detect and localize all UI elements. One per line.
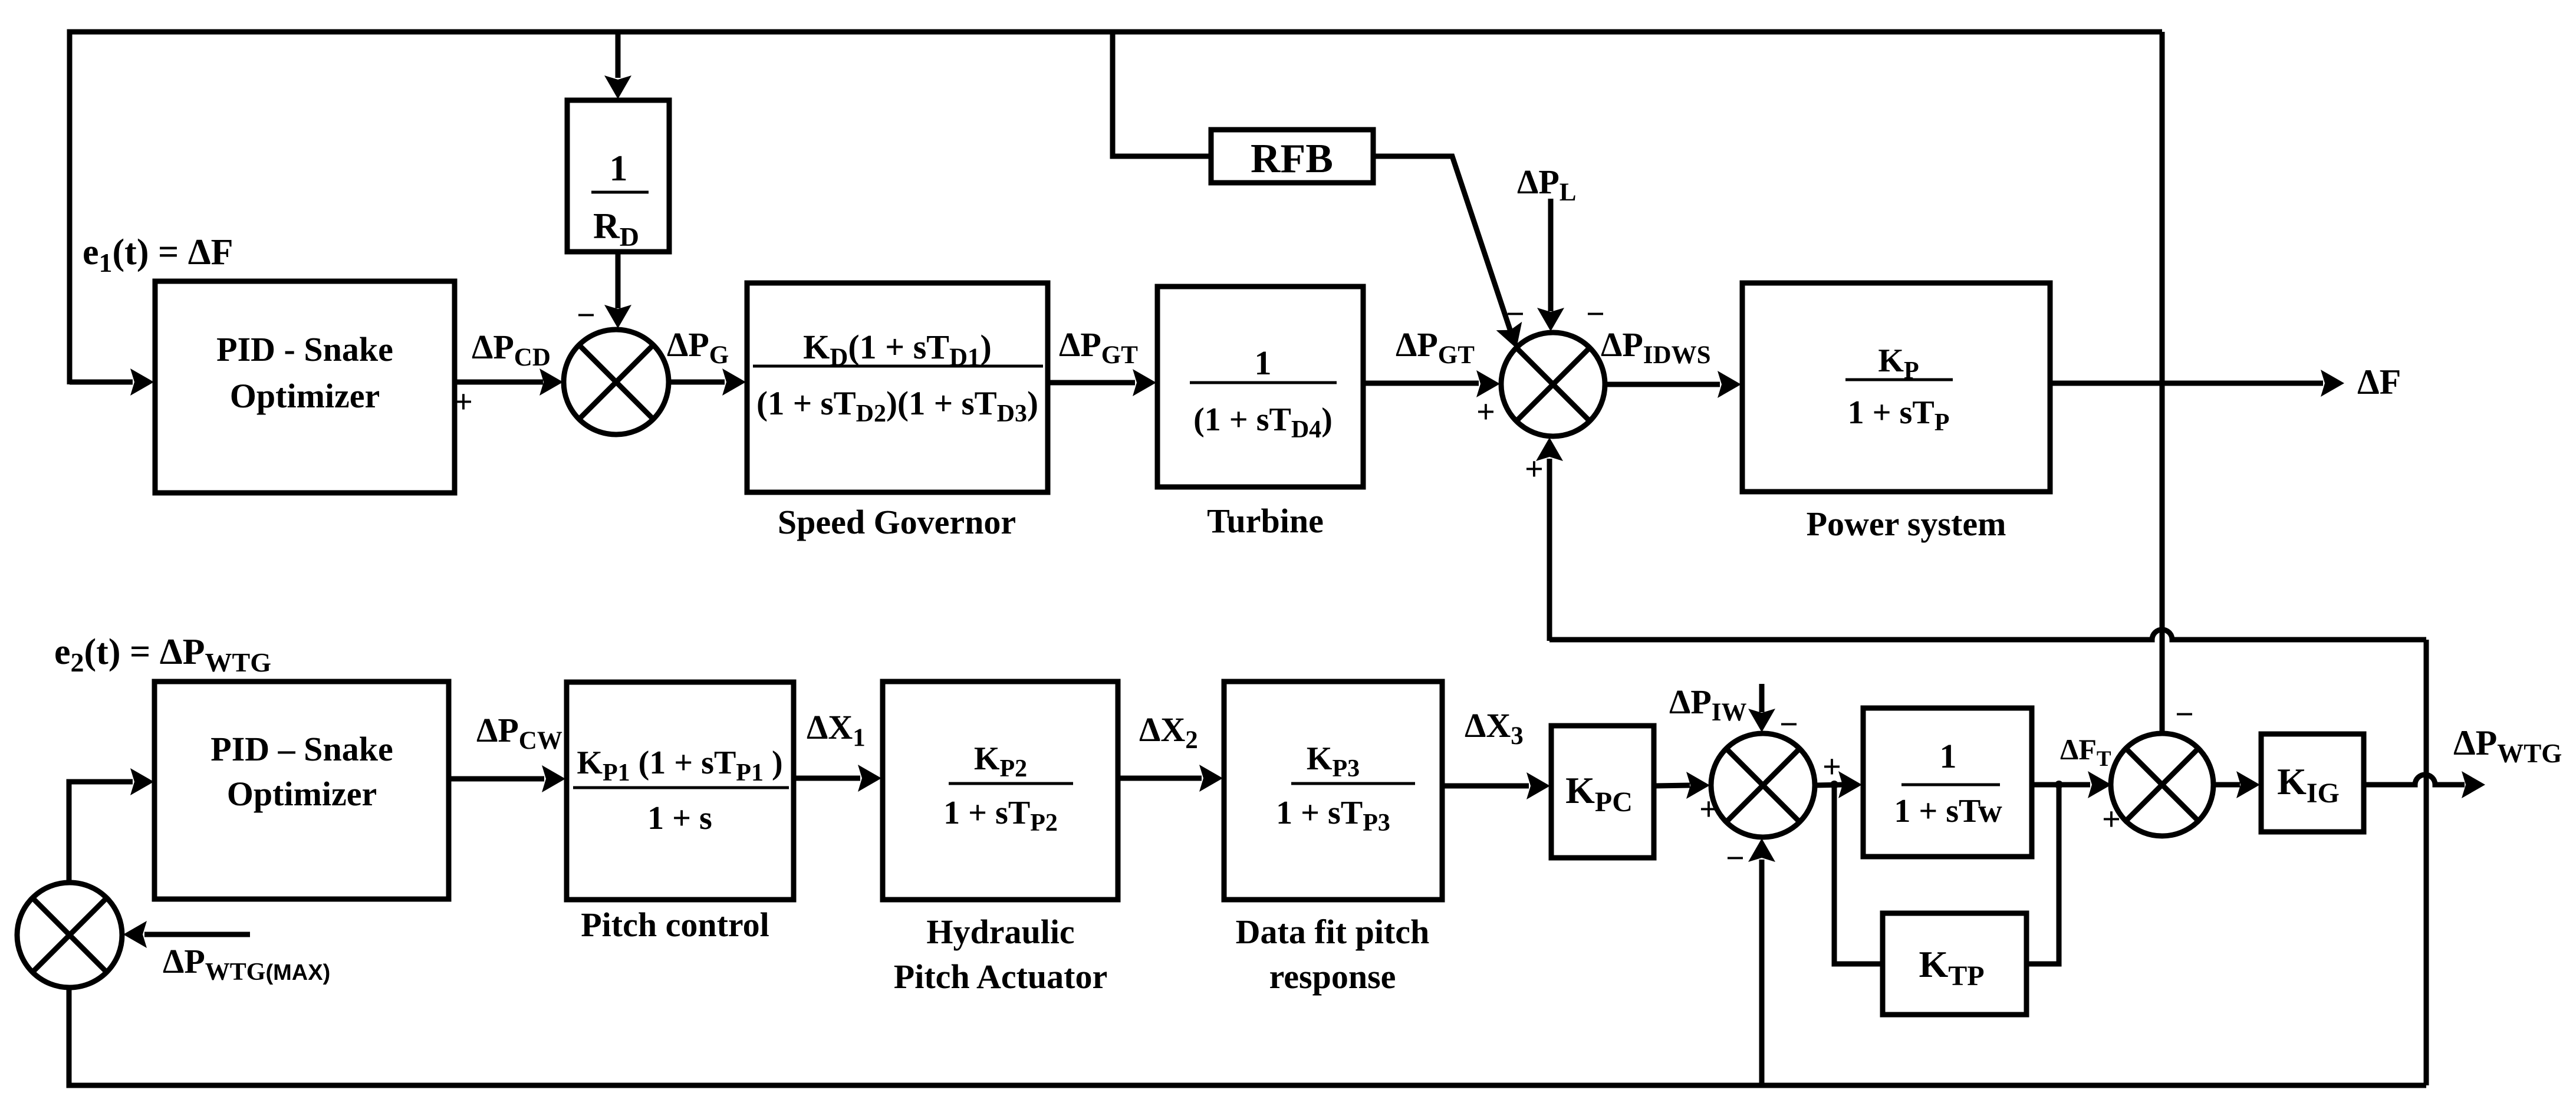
block Kig xyxy=(2261,734,2364,832)
svg-text:RFB: RFB xyxy=(1251,136,1333,182)
svg-text:−: − xyxy=(1506,296,1525,333)
wire: sum3 to 1/(1+sTw) xyxy=(1815,785,1843,785)
svg-text:Speed Governor: Speed Governor xyxy=(778,503,1016,541)
block RFB xyxy=(1211,130,1373,183)
svg-text:1 + s: 1 + s xyxy=(647,800,712,837)
summing junction sum4 xyxy=(2111,733,2213,836)
block Speed Governor xyxy=(747,283,1048,492)
summing junction sum3 xyxy=(1711,733,1815,837)
svg-text:+: + xyxy=(1822,749,1841,785)
block Pitch control xyxy=(567,682,794,900)
block 1/RD droop xyxy=(567,100,669,252)
block Kpc xyxy=(1551,726,1654,858)
svg-text:Pitch Actuator: Pitch Actuator xyxy=(894,957,1107,996)
svg-text:1: 1 xyxy=(1940,737,1957,775)
wire: Power system output to DF arrow xyxy=(2050,381,2323,386)
wire: sum4 to Kig xyxy=(2213,782,2240,788)
wire: sum5 up and into PID2 xyxy=(69,782,133,883)
block Ktp xyxy=(1883,913,2026,1015)
wire: Speed Governor to Turbine xyxy=(1048,380,1135,386)
wire: bottom feedback line xyxy=(69,988,2426,1085)
wire: Turbine to sum2 xyxy=(1363,381,1479,386)
wire: output branch vertical (DPwtg feedback) xyxy=(2424,640,2429,1085)
svg-text:+: + xyxy=(1476,394,1495,430)
wire: 1/RD to sum1 xyxy=(616,252,621,308)
summing junction sum2 xyxy=(1501,333,1605,436)
summing junction sum1 xyxy=(564,330,669,434)
wire: drop from top line to RFB xyxy=(1113,32,1211,156)
wire: Pitch control to Hydraulic xyxy=(794,776,860,781)
wire: Ktp loop left side xyxy=(1834,785,1883,964)
wire: top feedback line (DF to e1) xyxy=(70,32,2162,384)
wire: Hydraulic to Data fit xyxy=(1118,776,1202,781)
wire: DPwtg max input xyxy=(144,932,250,937)
svg-text:−: − xyxy=(2175,696,2194,733)
block Hydraulic Pitch Actuator xyxy=(883,682,1118,900)
wire: wind feedback up into sum2 bottom xyxy=(1547,459,1552,641)
wire: Kpc to sum3 xyxy=(1654,785,1690,786)
block Turbine xyxy=(1157,287,1363,487)
wire: bottom feedback up into sum3 xyxy=(1759,860,1765,1085)
block PID-Snake Optimizer (bottom) xyxy=(154,682,449,899)
block Data fit pitch response xyxy=(1224,682,1442,900)
wire: PID2 to Pitch control xyxy=(449,776,544,782)
wire: Ktp loop right side xyxy=(2026,785,2059,964)
wire: PID out to sum1 xyxy=(455,380,543,385)
svg-text:PID – Snake: PID – Snake xyxy=(210,730,393,768)
wire: DPl into sum2 top xyxy=(1548,199,1554,311)
svg-text:1: 1 xyxy=(610,149,628,189)
svg-text:ΔF: ΔF xyxy=(2357,363,2401,401)
block Power system xyxy=(1742,283,2050,492)
svg-text:+: + xyxy=(2102,801,2121,838)
wire: 1/(1+sTw) to sum4 xyxy=(2032,782,2090,788)
svg-text:Optimizer: Optimizer xyxy=(230,377,380,415)
svg-text:+: + xyxy=(454,384,473,420)
wire: wind feedback horizontal with hop over DF line xyxy=(1549,630,2426,640)
block 1/(1+sTw) xyxy=(1863,708,2032,857)
svg-text:Hydraulic: Hydraulic xyxy=(926,913,1074,951)
junction dot (Ktp tap right) xyxy=(2055,781,2063,789)
svg-text:Pitch control: Pitch control xyxy=(581,906,769,944)
wire: drop from top line into 1/RD xyxy=(616,32,621,78)
svg-text:−: − xyxy=(1726,840,1745,877)
wire: sum1 to Speed Governor xyxy=(669,380,725,385)
wire: RFB diagonal into sum2 xyxy=(1373,156,1511,331)
svg-text:Optimizer: Optimizer xyxy=(227,775,377,813)
svg-text:Turbine: Turbine xyxy=(1207,502,1324,540)
wire: sum2 to Power system xyxy=(1605,382,1720,387)
wire: Data fit to Kpc xyxy=(1442,784,1529,789)
svg-text:1 + sTP: 1 + sTP xyxy=(1848,394,1950,436)
svg-text:Power system: Power system xyxy=(1807,505,2006,543)
svg-text:response: response xyxy=(1269,957,1396,996)
svg-text:1 + sTw: 1 + sTw xyxy=(1894,793,2002,829)
svg-text:(1 + sTD2)(1 + sTD3): (1 + sTD2)(1 + sTD3) xyxy=(756,385,1038,427)
svg-text:Data fit pitch: Data fit pitch xyxy=(1236,913,1430,951)
wire: e1 input into PID-Snake block xyxy=(70,380,133,385)
svg-text:PID - Snake: PID - Snake xyxy=(216,330,393,368)
wire: DF feedback vertical xyxy=(2160,32,2165,733)
svg-text:−: − xyxy=(577,297,596,334)
summing junction sum5 (WTG max limit) xyxy=(17,883,122,988)
wire: Kig output with hop to DPwtg arrow xyxy=(2364,775,2465,785)
wire: DPiw into sum3 top xyxy=(1759,684,1765,712)
block PID-Snake Optimizer (top) xyxy=(155,281,455,493)
junction dot (Ktp tap left) xyxy=(1830,781,1838,789)
svg-text:1: 1 xyxy=(1255,344,1272,382)
